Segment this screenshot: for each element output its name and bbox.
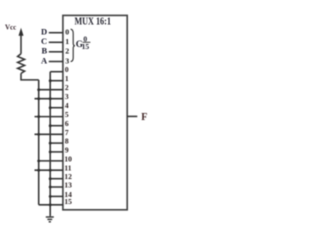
svg-text:A: A bbox=[41, 56, 48, 66]
svg-text:B: B bbox=[42, 46, 48, 56]
svg-text:10: 10 bbox=[64, 154, 72, 163]
svg-text:13: 13 bbox=[64, 181, 72, 190]
svg-text:MUX 16:1: MUX 16:1 bbox=[75, 16, 111, 27]
svg-text:9: 9 bbox=[65, 145, 69, 154]
svg-text:7: 7 bbox=[65, 128, 69, 137]
svg-text:0: 0 bbox=[65, 65, 69, 74]
svg-text:2: 2 bbox=[65, 47, 69, 56]
svg-text:D: D bbox=[41, 26, 47, 36]
svg-text:3: 3 bbox=[65, 92, 69, 101]
svg-text:2: 2 bbox=[65, 83, 69, 92]
svg-text:5: 5 bbox=[65, 110, 69, 119]
svg-text:15: 15 bbox=[82, 42, 90, 51]
svg-text:15: 15 bbox=[64, 197, 72, 206]
svg-text:F: F bbox=[141, 112, 147, 123]
svg-text:Vcc: Vcc bbox=[5, 23, 16, 31]
svg-text:1: 1 bbox=[65, 37, 69, 46]
svg-text:1: 1 bbox=[65, 74, 69, 83]
svg-text:8: 8 bbox=[65, 137, 69, 146]
svg-text:4: 4 bbox=[65, 101, 69, 110]
svg-text:3: 3 bbox=[65, 56, 69, 65]
svg-text:0: 0 bbox=[65, 28, 69, 37]
